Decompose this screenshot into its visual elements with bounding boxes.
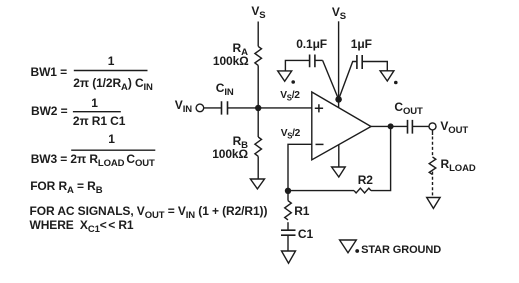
label condition RA = RB xyxy=(30,180,102,196)
resistor RLOAD xyxy=(429,157,436,175)
label BW2 denominator xyxy=(73,115,125,127)
wire VS supply rail to op-amp xyxy=(338,21,340,99)
wire op-amp output xyxy=(371,125,408,127)
label RA value 100k xyxy=(213,55,249,67)
terminal VIN circle xyxy=(196,104,204,112)
ground star left xyxy=(278,71,292,81)
wire VS left rail stub xyxy=(257,22,259,47)
wire diagonal supply node to 1uF cap xyxy=(339,62,357,100)
resistor R2 xyxy=(354,188,371,193)
label R2 xyxy=(358,174,373,186)
node star mark legend xyxy=(355,249,359,253)
label VS middle xyxy=(332,6,346,22)
capacitor C 0.1uF xyxy=(310,55,315,68)
wire diagonal 0.1uF cap to supply node xyxy=(323,60,339,99)
label BW2 numerator xyxy=(91,97,98,109)
label C value 1uF xyxy=(351,38,372,50)
node input junction dot xyxy=(255,105,261,111)
label VS/2 minus input xyxy=(281,129,300,140)
label where condition xyxy=(30,219,134,235)
label STAR GROUND legend xyxy=(361,245,441,256)
capacitor C1 xyxy=(281,230,296,235)
wire dashed RLOAD to ground xyxy=(432,172,434,198)
resistor RA xyxy=(255,46,262,65)
wire R2 to output node xyxy=(371,126,391,190)
label BW3 equation xyxy=(31,153,155,169)
capacitor COUT xyxy=(408,120,413,134)
capacitor CIN xyxy=(222,101,228,114)
label BW1 equation xyxy=(31,66,68,78)
wire inverting input xyxy=(288,144,312,190)
node star mark left xyxy=(291,80,295,84)
wire C1 to ground xyxy=(287,235,289,251)
label RLOAD xyxy=(441,158,476,174)
label RB value 100k xyxy=(212,148,248,160)
op-amp U1 xyxy=(312,92,371,160)
resistor R1 xyxy=(285,201,292,220)
label CIN xyxy=(216,82,234,98)
fraction bar BW1 xyxy=(74,70,148,72)
fraction bar BW3 xyxy=(71,149,155,151)
label VOUT xyxy=(440,120,468,136)
wire op-amp ground pin xyxy=(338,145,340,167)
wire node to R2 xyxy=(288,190,354,192)
label VS left xyxy=(251,5,265,21)
op-amp + pin mark xyxy=(315,104,323,112)
wire 0.1uF cap to star ground xyxy=(285,60,309,71)
wire COUT to VOUT xyxy=(412,125,429,127)
label C1 xyxy=(298,228,313,240)
label RA xyxy=(233,42,248,58)
label COUT xyxy=(394,101,422,117)
label RB xyxy=(233,135,248,151)
node star mark right xyxy=(394,81,398,85)
label VIN xyxy=(175,99,192,115)
op-amp - pin mark xyxy=(316,143,324,145)
capacitor C 1uF xyxy=(357,55,362,69)
wire CIN to op-amp + input xyxy=(228,107,312,109)
label R1 xyxy=(294,205,309,217)
resistor RB xyxy=(255,137,262,156)
fraction bar BW2 xyxy=(73,111,121,113)
label BW2 equation xyxy=(31,105,68,117)
wire node to R1 xyxy=(287,191,289,201)
wire 0.1uF cap right stub xyxy=(315,59,323,61)
ground op-amp xyxy=(332,167,346,177)
wire dashed VOUT to RLOAD xyxy=(432,137,434,158)
label C value 0.1uF xyxy=(296,38,327,50)
label BW1 denominator xyxy=(73,77,153,93)
ground star legend symbol xyxy=(340,240,357,253)
ground RLOAD xyxy=(427,198,440,209)
wire VOUT stub xyxy=(432,130,434,135)
wire R1 to C1 xyxy=(287,222,289,230)
wire 1uF cap to star ground xyxy=(362,62,387,71)
ground star right xyxy=(380,71,394,81)
label BW3 numerator xyxy=(108,133,115,145)
label VS/2 plus input xyxy=(280,91,299,102)
label AC signals formula xyxy=(30,205,268,221)
wire node to RB xyxy=(257,108,259,137)
node feedback junction dot xyxy=(285,188,291,194)
label BW1 numerator xyxy=(108,55,115,67)
ground RB xyxy=(250,179,264,189)
wire RA bottom to input node xyxy=(257,65,259,108)
wire VIN to CIN xyxy=(204,107,222,109)
node supply junction dot xyxy=(335,96,342,103)
terminal VOUT circle xyxy=(429,123,436,130)
ground C1 xyxy=(282,251,296,263)
wire RB to ground xyxy=(257,156,259,179)
wire supply stub to op-amp top edge xyxy=(338,99,340,107)
node output junction dot xyxy=(388,123,394,129)
